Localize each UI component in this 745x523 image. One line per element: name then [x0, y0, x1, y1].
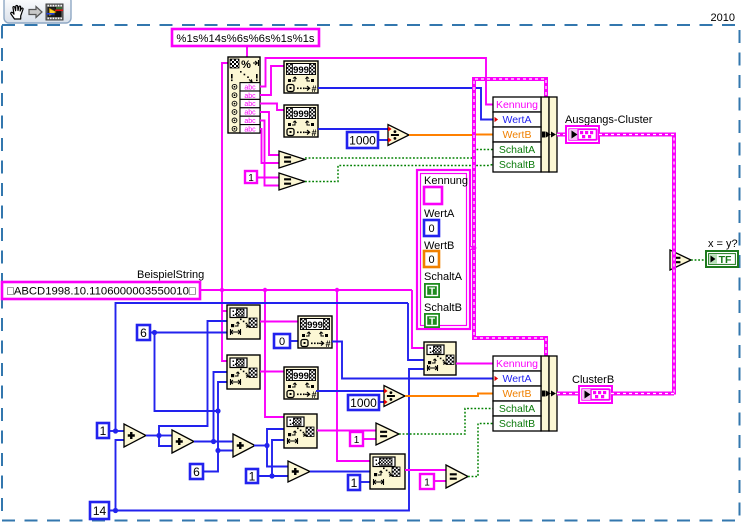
svg-text:#: # — [325, 339, 330, 349]
string subset node 2 — [227, 355, 260, 389]
wire BeispielString main — [200, 289, 412, 291]
junction add1 out — [156, 433, 161, 438]
wire add2 out — [194, 441, 233, 443]
wire equals2 to bundle1 SchaltB — [305, 165, 493, 182]
add node 4 — [288, 461, 310, 482]
wire 0 to number3 — [290, 340, 298, 342]
junction 14 — [113, 508, 118, 513]
wire equals5 to bundle2 SchaltB — [468, 424, 493, 477]
wire format string to scan node — [246, 46, 248, 57]
svg-text:1000: 1000 — [350, 396, 377, 410]
wire 1000 to divide2 — [379, 401, 384, 403]
svg-text:abc: abc — [244, 93, 256, 100]
format string constant %1s%14s%6s%6s%1s%1s — [172, 29, 319, 46]
numeric constant 1000 upper — [347, 132, 378, 148]
cluster wire bundle2 to ClusterB — [557, 392, 579, 396]
svg-text:T: T — [429, 317, 435, 328]
wire 6 to subset1 length — [150, 332, 227, 334]
string constant 1 equals5 — [420, 474, 434, 489]
string-to-number node 4 — [284, 367, 318, 400]
string subset node 5 — [424, 342, 456, 375]
svg-text:%1s%14s%6s%6s%1s%1s: %1s%14s%6s%6s%1s%1s — [176, 33, 314, 45]
junction cluster type wire — [472, 246, 477, 251]
svg-text:WertB: WertB — [503, 129, 532, 141]
svg-text:Kennung: Kennung — [424, 175, 468, 187]
svg-text:14: 14 — [93, 504, 107, 518]
svg-text:1: 1 — [354, 435, 360, 446]
junction add2 out — [211, 439, 216, 444]
svg-text:2010: 2010 — [711, 12, 735, 24]
wire add1 to add2 top — [159, 435, 172, 437]
wire number2 to divide1 — [318, 128, 388, 130]
toolbar labview vi icon — [46, 4, 63, 20]
svg-text:1: 1 — [249, 469, 256, 483]
Ausgangs-Cluster indicator — [566, 126, 599, 143]
svg-text:0: 0 — [428, 223, 434, 235]
string subset node 1 — [227, 305, 260, 339]
wire subset3 to equals4 — [317, 430, 376, 432]
svg-text:1: 1 — [100, 424, 107, 438]
numeric constant 1000 lower — [348, 395, 379, 410]
junction 1 add4 — [269, 473, 274, 478]
junction 6 upper — [152, 330, 157, 335]
wire number1 to bundle1 WertA — [318, 88, 493, 120]
wire string riser to subset4 — [337, 290, 370, 461]
wire 1 to add1 — [109, 430, 124, 432]
wire subset4 to equals5 — [405, 469, 446, 471]
equals node 2 — [279, 173, 305, 190]
wire divide1 to bundle1 WertB — [409, 134, 493, 137]
wire string riser to subset3 — [265, 290, 284, 417]
svg-text:SchaltB: SchaltB — [499, 159, 535, 171]
wire 1 to subset4 length — [360, 481, 370, 483]
toolbar hand tool icon — [11, 6, 23, 19]
cluster constant empty string — [424, 187, 442, 204]
string subset node 4 — [370, 454, 405, 489]
svg-text:999: 999 — [307, 320, 323, 331]
add node 1 — [124, 424, 146, 447]
wire 6 down staircase — [155, 333, 228, 412]
wire add1 riser to subset1 offset — [159, 321, 227, 436]
ClusterB indicator — [579, 386, 612, 403]
svg-text:x = y?: x = y? — [708, 238, 738, 250]
svg-text:6: 6 — [140, 326, 147, 340]
numeric constant 14 — [90, 502, 109, 519]
svg-text:abc: abc — [244, 118, 256, 125]
TF boolean indicator — [706, 251, 738, 267]
cluster type wire to bundle1 — [470, 79, 546, 248]
svg-text:#: # — [311, 128, 316, 138]
numeric constant 6 lower — [190, 464, 203, 479]
wire 6 lower to riser — [203, 451, 218, 472]
svg-text:999: 999 — [293, 109, 309, 120]
svg-text:SchaltA: SchaltA — [499, 403, 535, 415]
cluster wire ClusterB to equals3 — [611, 392, 674, 396]
cluster constant WertA value 0 — [424, 220, 439, 236]
wire number4 to divide2 — [316, 390, 384, 392]
coercion dot divide2 top — [384, 388, 388, 393]
wire subset2 to string-to-number 4 — [260, 371, 284, 373]
svg-text:SchaltA: SchaltA — [424, 271, 463, 283]
wire add1 out — [146, 435, 159, 437]
wire constant1 to equals2 top — [257, 177, 279, 179]
wire add1 to add2 bottom — [159, 436, 172, 447]
svg-text:999: 999 — [293, 65, 309, 76]
svg-text:WertA: WertA — [424, 208, 455, 220]
wire abc2 to string-to-number 1 — [260, 66, 284, 95]
BeispielString string constant — [2, 282, 200, 299]
svg-text:Ausgangs-Cluster: Ausgangs-Cluster — [565, 114, 653, 126]
wire staircase to add3 bottom — [218, 411, 233, 451]
numeric constant 0 default — [274, 334, 290, 348]
numeric constant 1 lower-left — [97, 423, 109, 438]
cluster type wire to bundle2 — [474, 248, 546, 356]
divide node 1 — [388, 125, 409, 146]
string constant 1 upper — [245, 171, 257, 184]
cluster wire bundle1 to indicator — [557, 133, 566, 137]
add node 2 — [172, 430, 194, 453]
wire stub to subset1 — [222, 310, 227, 312]
cluster constant SchaltB value T — [424, 313, 440, 328]
svg-text:#: # — [311, 390, 316, 400]
wire divide2 to bundle2 WertB — [405, 394, 493, 397]
wire add3 to subset3 offset — [267, 429, 284, 446]
wire 1000 to divide1 — [378, 139, 388, 141]
numeric constant 6 upper — [137, 325, 150, 340]
svg-text:□ABCD1998.10.1106000003550010□: □ABCD1998.10.1106000003550010□ — [7, 286, 196, 298]
wire constant1 to equals5 bottom — [434, 480, 446, 482]
bundle-by-name node 2 — [493, 356, 557, 431]
wire abc4 to equals1 top — [260, 112, 279, 155]
wire abc3 to string-to-number 2 — [260, 104, 284, 111]
string-to-number node 3 — [298, 316, 332, 349]
wire add2 riser to subset2 offset — [214, 372, 228, 442]
wire equals3 to TF indicator — [691, 259, 706, 261]
wire equals1 to bundle1 SchaltA — [305, 150, 493, 159]
svg-text:0: 0 — [279, 336, 285, 348]
svg-text:WertA: WertA — [503, 373, 532, 385]
equals node 5 — [446, 465, 468, 488]
svg-text:WertA: WertA — [503, 114, 532, 126]
numeric constant 1 add4 — [246, 469, 258, 483]
svg-text:TF: TF — [719, 254, 732, 266]
junction add3 out — [264, 443, 269, 448]
junction pink riser3 — [335, 288, 339, 292]
cluster constant Kennung frame — [417, 170, 470, 329]
scan from string node — [228, 57, 260, 133]
cluster constant WertB value 0 — [424, 251, 439, 267]
equals node 1 — [279, 151, 305, 168]
equals node 4 — [376, 423, 399, 445]
string-to-number node 2 — [284, 105, 318, 138]
svg-text:abc: abc — [244, 110, 256, 117]
wire constant1 to equals4 bottom — [363, 438, 376, 440]
wire riser to subset3 length — [272, 440, 284, 476]
svg-text:1: 1 — [424, 478, 430, 489]
divide node 2 — [384, 386, 405, 407]
wire 14 to length — [109, 369, 424, 511]
svg-text:ClusterB: ClusterB — [572, 374, 614, 386]
wire add3 to add4 top — [267, 446, 288, 467]
junction pink riser1 — [220, 288, 224, 292]
wire abc6 to equals1 bottom — [260, 129, 279, 163]
string-to-number node 1 — [284, 61, 318, 94]
svg-text:1000: 1000 — [349, 133, 376, 147]
svg-text:WertB: WertB — [503, 388, 532, 400]
svg-text:abc: abc — [244, 84, 256, 91]
svg-text:abc: abc — [244, 101, 256, 108]
svg-text:999: 999 — [293, 371, 309, 382]
wire input string riser to scan node — [222, 63, 228, 290]
svg-text:SchaltB: SchaltB — [424, 302, 462, 314]
cluster constant SchaltA value T — [424, 283, 440, 298]
wire string riser to subset1 and subset2 — [222, 290, 227, 361]
svg-text:T: T — [429, 287, 435, 298]
junction staircase — [215, 408, 220, 413]
wire offsets down to subset5 offset — [408, 303, 424, 360]
wire string riser to subset5 — [412, 290, 424, 348]
svg-text:1: 1 — [248, 173, 254, 184]
wire subset1 to string-to-number 3 — [260, 321, 298, 323]
svg-text:SchaltB: SchaltB — [499, 418, 535, 430]
svg-text:BeispielString: BeispielString — [137, 269, 204, 281]
svg-text:SchaltA: SchaltA — [499, 144, 535, 156]
svg-text:abc: abc — [244, 126, 256, 133]
coercion dot bundle2 WertA — [495, 376, 499, 381]
coercion dot bundle1 WertA — [495, 117, 499, 122]
svg-text:#: # — [311, 84, 316, 94]
wire add4 out to subset4 offset — [310, 471, 370, 473]
coercion dot divide2 bottom — [384, 399, 388, 404]
svg-text:Kennung: Kennung — [496, 99, 538, 111]
cluster wire indicator to equals3 — [599, 135, 674, 395]
wire 14 riser to add1 bottom — [116, 440, 125, 511]
wire 1 to add4 bottom — [258, 475, 288, 477]
string subset node 3 — [284, 414, 317, 448]
wire number3 to bundle2 WertA — [332, 342, 493, 379]
coercion dot divide1 bottom — [388, 137, 392, 142]
numeric constant 1 subset4 — [348, 475, 360, 490]
svg-text:0: 0 — [428, 254, 434, 266]
equals node x=y — [670, 250, 691, 270]
add node 3 — [233, 434, 255, 457]
wire subset5 to bundle2 Kennung — [456, 363, 493, 365]
svg-text:6: 6 — [193, 465, 200, 479]
svg-text:%: % — [241, 59, 251, 71]
wire add3 out — [254, 445, 267, 447]
string constant 1 equals4 — [350, 432, 363, 446]
bundle-by-name node 1 — [493, 97, 557, 172]
wire abc5 to equals2 bottom — [260, 121, 279, 186]
junction add3 bottom feed — [215, 448, 220, 453]
wire equals4 to bundle2 SchaltA — [399, 409, 493, 435]
junction pink riser2 — [263, 288, 267, 292]
svg-text:Kennung: Kennung — [496, 358, 538, 370]
wire 1 riser to offsets — [116, 303, 409, 431]
wire abc1 kennung to bundle1 — [260, 58, 493, 105]
junction 1 riser — [113, 428, 118, 433]
svg-text:1: 1 — [351, 476, 358, 490]
toolbar arrow icon — [29, 7, 42, 18]
coercion dot divide1 top — [388, 126, 392, 131]
